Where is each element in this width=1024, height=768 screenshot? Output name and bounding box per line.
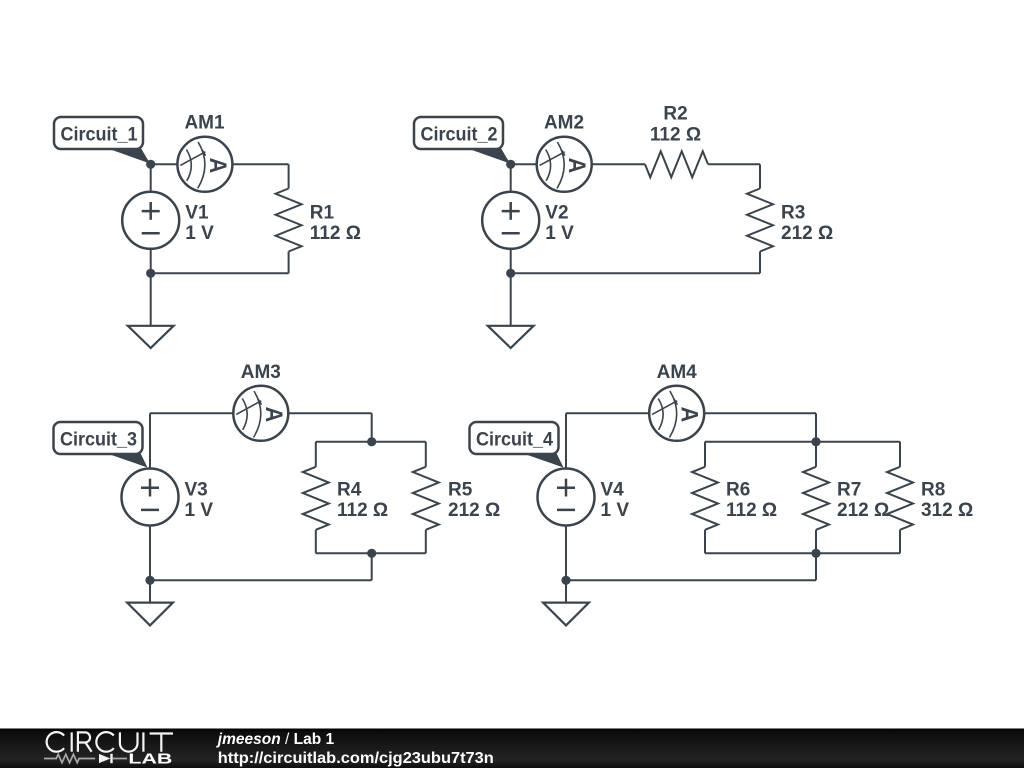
svg-text:312 Ω: 312 Ω xyxy=(921,500,973,521)
svg-text:V4: V4 xyxy=(601,479,625,500)
svg-text:jmeeson / Lab 1: jmeeson / Lab 1 xyxy=(216,731,335,748)
wire xyxy=(316,552,426,554)
wire xyxy=(705,552,900,554)
resistor R7 xyxy=(803,442,829,554)
svg-text:112 Ω: 112 Ω xyxy=(650,125,701,146)
svg-text:AM4: AM4 xyxy=(657,362,698,383)
node n3 (Circuit_2) xyxy=(506,160,515,169)
svg-text:AM3: AM3 xyxy=(241,362,281,383)
voltage source V4 xyxy=(538,469,595,526)
node n7 xyxy=(145,576,154,585)
svg-text:V3: V3 xyxy=(185,479,208,500)
ammeter AM1 xyxy=(177,137,232,192)
svg-text:A: A xyxy=(564,158,591,174)
svg-text:1 V: 1 V xyxy=(601,500,630,521)
logo resistor symbol xyxy=(44,754,95,762)
svg-text:V1: V1 xyxy=(185,202,209,223)
wire xyxy=(705,441,900,443)
node n5 xyxy=(367,437,376,446)
svg-text:AM1: AM1 xyxy=(184,113,225,134)
resistor R8 xyxy=(887,442,913,554)
wire xyxy=(815,413,817,441)
wire xyxy=(371,413,373,441)
net flag Circuit_1 xyxy=(54,117,150,164)
wire xyxy=(704,412,816,414)
svg-text:1 V: 1 V xyxy=(185,223,214,244)
wire xyxy=(151,163,177,165)
svg-text:112 Ω: 112 Ω xyxy=(337,500,388,521)
svg-text:Circuit_2: Circuit_2 xyxy=(421,124,498,145)
wire xyxy=(371,553,373,580)
svg-text:1 V: 1 V xyxy=(185,500,214,521)
wire xyxy=(151,272,289,274)
wire xyxy=(232,163,288,165)
svg-text:R6: R6 xyxy=(726,479,750,500)
net flag Circuit_3 xyxy=(54,422,148,468)
svg-text:R3: R3 xyxy=(781,202,805,223)
wire xyxy=(150,579,372,581)
svg-text:R7: R7 xyxy=(837,479,861,500)
svg-text:A: A xyxy=(676,407,703,423)
wire xyxy=(566,412,649,414)
ground xyxy=(488,326,534,348)
wire xyxy=(510,249,512,273)
node n8 xyxy=(811,437,820,446)
resistor R3 xyxy=(747,164,773,273)
voltage source V1 xyxy=(122,192,179,249)
voltage source V2 xyxy=(482,192,539,249)
wire xyxy=(565,580,567,602)
svg-text:212 Ω: 212 Ω xyxy=(781,223,833,244)
svg-text:AM2: AM2 xyxy=(544,113,584,134)
svg-text:R1: R1 xyxy=(310,202,335,223)
svg-text:Circuit_1: Circuit_1 xyxy=(61,124,138,145)
svg-text:212 Ω: 212 Ω xyxy=(837,500,889,521)
ammeter AM4 xyxy=(649,386,704,441)
node n2 xyxy=(146,269,155,278)
svg-text:R8: R8 xyxy=(921,479,945,500)
svg-text:1 V: 1 V xyxy=(545,223,574,244)
svg-text:212 Ω: 212 Ω xyxy=(448,500,500,521)
wire xyxy=(316,441,426,443)
wire xyxy=(150,412,233,414)
wire xyxy=(565,413,567,468)
wire xyxy=(511,163,537,165)
wire xyxy=(288,412,371,414)
svg-text:LAB: LAB xyxy=(128,752,172,768)
wire xyxy=(566,579,816,581)
ammeter AM2 xyxy=(537,137,592,192)
svg-text:A: A xyxy=(205,158,232,174)
wire xyxy=(149,526,151,581)
svg-text:112 Ω: 112 Ω xyxy=(726,500,777,521)
voltage source V3 xyxy=(122,469,179,526)
node n10 xyxy=(561,576,570,585)
ground xyxy=(128,326,174,348)
resistor R5 xyxy=(413,442,439,554)
net flag Circuit_4 xyxy=(470,422,564,468)
svg-text:R5: R5 xyxy=(448,479,473,500)
net flag Circuit_2 xyxy=(414,117,510,164)
svg-text:http://circuitlab.com/cjg23ubu: http://circuitlab.com/cjg23ubu7t73n xyxy=(218,750,494,767)
svg-text:Circuit_4: Circuit_4 xyxy=(476,429,553,450)
wire xyxy=(708,163,760,165)
svg-text:A: A xyxy=(261,407,288,423)
CircuitLab logo wordmark CIRCUIT xyxy=(47,732,173,752)
svg-text:Circuit_3: Circuit_3 xyxy=(60,429,137,450)
resistor R2 xyxy=(645,151,708,177)
resistor R1 xyxy=(276,164,302,273)
wire xyxy=(510,164,512,192)
wire xyxy=(815,553,817,580)
wire xyxy=(150,164,152,192)
svg-text:R2: R2 xyxy=(663,104,687,125)
wire xyxy=(511,272,760,274)
wire xyxy=(150,273,152,326)
ground xyxy=(543,603,589,626)
svg-text:R4: R4 xyxy=(337,479,362,500)
node n4 xyxy=(506,269,515,278)
node n9 xyxy=(811,549,820,558)
ground xyxy=(127,603,173,626)
svg-text:V2: V2 xyxy=(545,202,568,223)
logo diode symbol xyxy=(99,754,127,763)
wire xyxy=(510,273,512,326)
resistor R4 xyxy=(303,442,329,554)
wire xyxy=(149,413,151,468)
resistor R6 xyxy=(692,442,718,554)
footer bar xyxy=(0,729,1024,768)
node n6 xyxy=(367,549,376,558)
node n1 (Circuit_1) xyxy=(146,160,155,169)
wire xyxy=(592,163,645,165)
wire xyxy=(150,249,152,273)
ammeter AM3 xyxy=(233,386,288,441)
wire xyxy=(149,580,151,602)
wire xyxy=(565,526,567,581)
svg-text:112 Ω: 112 Ω xyxy=(310,223,361,244)
